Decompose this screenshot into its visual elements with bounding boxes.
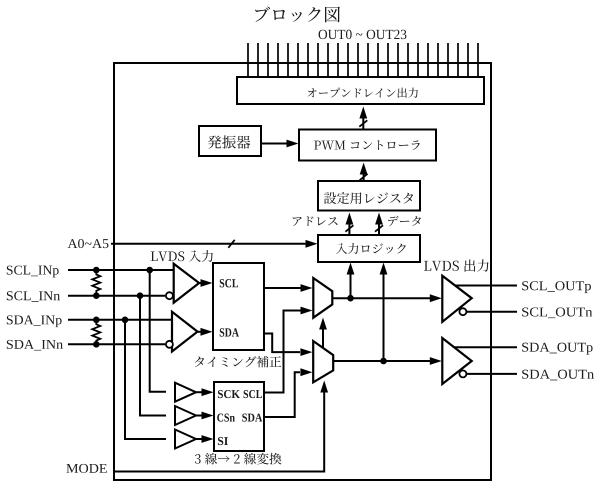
block: open-drain output (オープンドレイン出力) <box>237 77 484 104</box>
label SCL_INn <box>7 291 60 302</box>
wire SCL_INp <box>68 269 174 271</box>
wire: A0~A5 bus into input logic <box>111 243 309 245</box>
title ブロック図 <box>255 7 340 23</box>
wire: SDA rail up to input logic <box>383 268 385 361</box>
wire SCL_OUTp <box>455 285 517 287</box>
wire: SCL_INp tap down to SCK buffer <box>150 270 166 392</box>
wire: SDA receiver to timing block <box>198 331 205 333</box>
label SDA_OUTp <box>522 343 592 355</box>
pin label SCL <box>244 390 262 398</box>
wire SDA_OUTn <box>466 373 517 375</box>
block: timing correction with SCL/SDA <box>213 263 264 350</box>
wire: SI buffer to converter <box>196 438 205 440</box>
wire: MODE select into MUX2 <box>114 390 324 472</box>
wire SDA_OUTp <box>455 346 518 348</box>
buffer U7: SDA LVDS output driver <box>442 338 471 384</box>
wire: MUX2 output to SDA output driver <box>333 360 434 362</box>
wire: SCL receiver to timing block <box>199 282 204 284</box>
block: input logic (入力ロジック) <box>318 235 420 262</box>
wire: SCL_INn tap down to CSn buffer <box>140 296 166 416</box>
mux M1: SCL path selector <box>313 278 332 318</box>
wire SDA_INn <box>68 343 165 345</box>
24 output pins OUT0-OUT23 <box>248 43 478 77</box>
label MODE <box>66 464 106 473</box>
pin label SDA <box>242 414 262 422</box>
wire SCL_OUTn <box>466 311 517 313</box>
buffer U2: SDA LVDS input receiver <box>172 312 198 352</box>
buffer U3: SCK input buffer <box>175 383 196 402</box>
label アドレス (address) <box>293 216 338 226</box>
bus arrow: input logic to register (address) <box>348 218 350 235</box>
bus arrow: PWM controller to open-drain output <box>362 111 364 130</box>
wire: SDA_INp tap down to SI buffer <box>125 320 166 439</box>
wire: CSn buffer to converter <box>196 415 205 417</box>
buffer U4: CSn input buffer <box>175 406 196 425</box>
block: 3-wire to 2-wire converter <box>214 382 264 451</box>
bus arrow: register to PWM controller <box>363 168 365 181</box>
block: configuration register (設定用レジスタ) <box>318 181 420 211</box>
wire SCL_INn <box>68 295 165 297</box>
buffer U5: SI input buffer <box>175 430 196 449</box>
wire: timing SCL out to MUX1 <box>264 287 304 289</box>
label SDA_INp <box>7 315 62 327</box>
label SCL_OUTp <box>522 281 591 293</box>
node: SCL rail junction <box>347 295 354 302</box>
bus arrow: input logic to register (data) <box>378 218 380 235</box>
wire: timing SDA out to MUX2 (jog) <box>264 334 300 353</box>
pin label SDA <box>220 328 239 336</box>
pin label SCL <box>220 279 238 287</box>
pin label SCK <box>218 390 240 398</box>
pin label CSn <box>217 414 235 422</box>
label タイミング補正 <box>195 356 281 368</box>
label SDA_OUTn <box>522 370 594 381</box>
label 3線→2線変換 <box>195 453 282 465</box>
label データ (data) <box>388 216 421 227</box>
wire: MUX1 output to SCL output driver <box>332 297 434 299</box>
wire: select from MUX2 top to MUX1 bottom <box>322 326 324 348</box>
label OUT0 ~ OUT23 <box>319 30 407 39</box>
wire: converter SDA to MUX2 lower input <box>264 372 300 417</box>
wire: converter SCL to MUX1 lower input <box>264 311 304 393</box>
label SCL_OUTn <box>522 307 592 318</box>
buffer U6: SCL LVDS output driver <box>442 276 471 322</box>
label SDA_INn <box>7 340 63 351</box>
resistor R2: SDA termination <box>92 320 100 345</box>
label LVDS 入力 (LVDS input) <box>151 250 213 262</box>
wire: SCL rail up to input logic <box>350 268 352 298</box>
wire: SCK buffer to converter <box>196 391 205 393</box>
chip outer boundary box <box>114 63 491 480</box>
pin label SI <box>218 437 228 445</box>
wire SDA_INp <box>68 319 172 321</box>
label A0~A5 <box>68 239 109 248</box>
block: PWM controller (PWMコントローラ) <box>299 130 436 161</box>
buffer U1: SCL LVDS input receiver <box>174 264 199 303</box>
label SCL_INp <box>7 266 59 278</box>
mux M2: SDA path selector <box>313 341 333 382</box>
label LVDS 出力 (LVDS output) <box>424 259 489 271</box>
block: oscillator (発振器) <box>199 126 261 156</box>
node: SDA rail junction <box>380 358 387 365</box>
wire: oscillator to PWM controller <box>262 143 291 145</box>
resistor R1: SCL termination <box>92 270 100 296</box>
